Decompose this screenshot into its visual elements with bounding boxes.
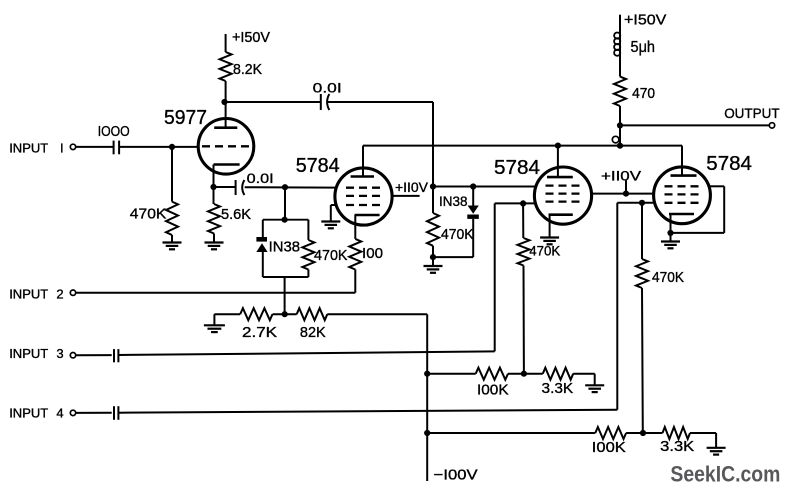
svg-text:INPUT: INPUT — [9, 405, 48, 420]
svg-text:+II0V: +II0V — [601, 168, 642, 184]
svg-text:+II0V: +II0V — [395, 179, 429, 195]
svg-text:3.3K: 3.3K — [660, 438, 694, 455]
svg-text:470: 470 — [632, 85, 655, 102]
svg-text:470K: 470K — [529, 242, 561, 258]
svg-text:SeekIC.com: SeekIC.com — [670, 462, 780, 487]
svg-text:I00K: I00K — [592, 439, 626, 456]
svg-text:IOOO: IOOO — [98, 123, 130, 140]
svg-text:3: 3 — [56, 346, 63, 361]
svg-text:I00K: I00K — [477, 381, 509, 398]
svg-text:0.0I: 0.0I — [313, 79, 342, 95]
svg-text:2: 2 — [56, 286, 63, 301]
svg-text:INPUT: INPUT — [9, 141, 48, 156]
svg-text:3.3K: 3.3K — [542, 380, 574, 397]
svg-text:+I50V: +I50V — [624, 12, 666, 29]
svg-text:4: 4 — [56, 405, 63, 420]
svg-text:5.6K: 5.6K — [221, 206, 251, 223]
svg-text:0.0I: 0.0I — [247, 170, 274, 186]
svg-text:I: I — [60, 141, 64, 156]
svg-text:5μh: 5μh — [631, 39, 656, 56]
svg-text:5784: 5784 — [296, 155, 340, 177]
svg-text:8.2K: 8.2K — [233, 61, 262, 78]
svg-text:470K: 470K — [130, 205, 167, 222]
svg-text:−I00V: −I00V — [434, 468, 478, 484]
svg-text:2.7K: 2.7K — [242, 324, 277, 341]
svg-text:INPUT: INPUT — [9, 346, 48, 361]
svg-text:IN38: IN38 — [269, 240, 300, 256]
svg-text:+I50V: +I50V — [232, 29, 270, 46]
svg-text:5784: 5784 — [494, 157, 540, 179]
svg-text:IN38: IN38 — [439, 193, 468, 209]
svg-text:I00: I00 — [362, 245, 383, 262]
svg-text:OUTPUT: OUTPUT — [724, 105, 780, 121]
svg-text:470K: 470K — [314, 247, 348, 264]
svg-text:470K: 470K — [441, 226, 474, 243]
svg-text:470K: 470K — [652, 269, 684, 286]
svg-text:5784: 5784 — [706, 153, 752, 175]
svg-text:82K: 82K — [300, 324, 326, 341]
svg-text:INPUT: INPUT — [9, 286, 48, 301]
svg-text:5977: 5977 — [164, 107, 207, 129]
